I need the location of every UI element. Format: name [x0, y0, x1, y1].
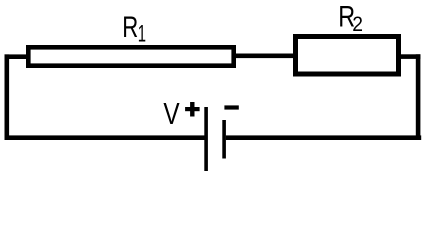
battery V: short negative plate: [222, 120, 226, 159]
wire: stub from left rail to R1 left: [5, 54, 29, 59]
plus sign: [185, 102, 200, 117]
wire: left vertical rail: [5, 54, 10, 140]
wire: bottom left (rail to battery +): [5, 135, 205, 140]
label R1: [122, 10, 146, 48]
wire: R2 right stub to right rail: [399, 54, 420, 59]
wire: bottom right (battery - to right rail): [226, 135, 421, 140]
svg-text:R: R: [122, 10, 138, 44]
svg-text:V: V: [163, 96, 180, 130]
svg-text:2: 2: [352, 13, 363, 36]
wire: R1 right to R2 left: [234, 54, 295, 59]
resistor R2: [296, 37, 399, 75]
resistor R1: [28, 47, 233, 65]
svg-text:1: 1: [138, 21, 146, 47]
battery V: long positive plate: [204, 107, 208, 171]
minus sign: [224, 105, 238, 109]
wire: right vertical rail: [416, 54, 421, 140]
label R2: [338, 0, 363, 36]
